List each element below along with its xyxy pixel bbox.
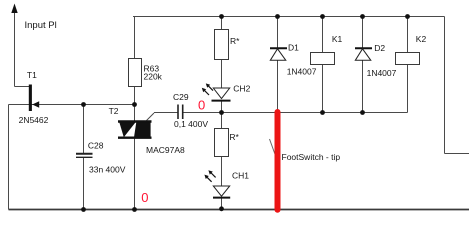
svg-text:C29: C29 bbox=[173, 92, 189, 102]
svg-text:D2: D2 bbox=[374, 43, 385, 53]
diode D1 bbox=[270, 48, 287, 60]
wire D2 top bbox=[362, 17, 364, 49]
footswitch pointer line bbox=[270, 139, 277, 157]
svg-text:CH1: CH1 bbox=[232, 171, 249, 181]
svg-text:R*: R* bbox=[230, 36, 240, 46]
wire R63 bottom bbox=[134, 87, 136, 105]
svg-text:0: 0 bbox=[141, 190, 148, 205]
triac T2 bbox=[118, 122, 152, 138]
relay coil K2 bbox=[396, 53, 420, 65]
wire K2 bottom bbox=[407, 65, 409, 113]
capacitor C29 bbox=[178, 105, 183, 120]
resistor R* lower bbox=[215, 129, 229, 157]
svg-text:T2: T2 bbox=[109, 106, 119, 116]
svg-text:T1: T1 bbox=[27, 70, 37, 80]
diode D2 bbox=[355, 48, 372, 60]
svg-text:33n 400V: 33n 400V bbox=[89, 165, 126, 175]
wire K1 top bbox=[322, 17, 324, 53]
wire right stub bbox=[445, 153, 469, 155]
wire C28 top bbox=[83, 105, 85, 154]
resistor R* upper bbox=[215, 30, 229, 60]
resistor R63 bbox=[129, 59, 142, 87]
wire K2 top bbox=[407, 17, 409, 53]
FootSwitch red wire bbox=[275, 112, 281, 210]
transistor T1 bar bbox=[29, 85, 32, 112]
svg-text:R*: R* bbox=[229, 132, 239, 142]
wire input arrow lead bbox=[15, 6, 30, 87]
LED CH1 bbox=[204, 170, 230, 197]
svg-text:CH2: CH2 bbox=[233, 83, 250, 93]
svg-text:1N4007: 1N4007 bbox=[367, 68, 397, 78]
wire triac bottom bbox=[134, 139, 136, 210]
LED CH2 bbox=[202, 83, 231, 100]
input arrowhead bbox=[11, 4, 17, 14]
svg-text:K2: K2 bbox=[416, 34, 427, 44]
wire D1 bottom bbox=[277, 61, 279, 113]
svg-text:C28: C28 bbox=[88, 141, 104, 151]
svg-text:2N5462: 2N5462 bbox=[19, 115, 49, 125]
svg-text:D1: D1 bbox=[288, 43, 299, 53]
svg-text:MAC97A8: MAC97A8 bbox=[146, 145, 185, 155]
svg-text:K1: K1 bbox=[332, 34, 343, 44]
wire mid rail to R* lower bbox=[221, 113, 223, 129]
wire K1 bottom bbox=[322, 65, 324, 113]
wire R* upper to CH2 bbox=[221, 60, 223, 89]
capacitor C28 bbox=[76, 154, 93, 158]
wire R* upper top bbox=[221, 17, 223, 30]
wire mid rail right of C29 bbox=[183, 112, 408, 114]
wire CH1 to bottom rail bbox=[221, 198, 223, 210]
wire mid rail left of C29 bbox=[154, 112, 178, 114]
svg-text:220k: 220k bbox=[144, 72, 163, 82]
wire top rail bbox=[133, 16, 445, 18]
wire R63 top bbox=[134, 17, 136, 59]
wire left vertical bbox=[8, 105, 10, 210]
wire D2 bottom bbox=[362, 61, 364, 113]
wire D1 top bbox=[277, 17, 279, 49]
wire main horizontal bbox=[9, 104, 135, 106]
wire R* lower to CH1 bbox=[221, 157, 223, 187]
transistor T1 gate arrowhead bbox=[32, 101, 39, 107]
wire C28 bottom bbox=[83, 158, 85, 210]
wire bottom rail bbox=[9, 209, 469, 211]
wire triac gate diagonal bbox=[147, 113, 155, 121]
svg-text:FootSwitch - tip: FootSwitch - tip bbox=[282, 152, 341, 162]
svg-text:1N4007: 1N4007 bbox=[287, 67, 317, 77]
wire triac top bbox=[134, 105, 136, 122]
svg-text:0,1 400V: 0,1 400V bbox=[174, 119, 208, 129]
wire right vertical bbox=[444, 17, 446, 154]
wire CH2 to mid rail bbox=[221, 101, 223, 113]
svg-text:Input Pl: Input Pl bbox=[25, 20, 57, 31]
relay coil K1 bbox=[311, 53, 335, 65]
svg-text:0: 0 bbox=[198, 98, 205, 113]
